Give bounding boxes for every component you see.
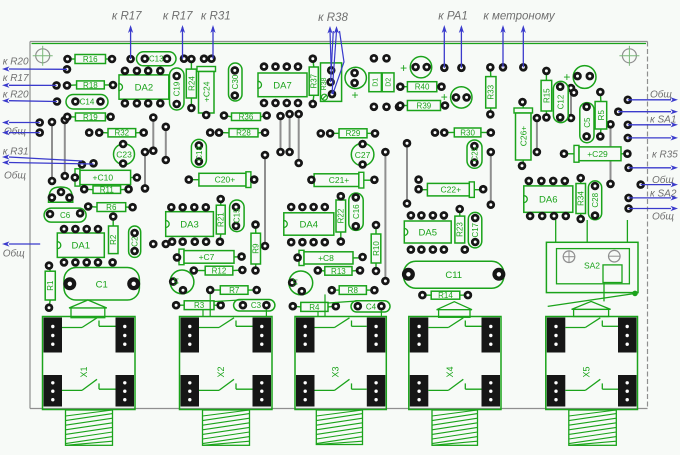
pads к PA1 targets [440, 64, 466, 73]
svg-text:DA7: DA7 [273, 80, 291, 91]
capacitor C4 [351, 301, 390, 312]
pads к метроному targets [499, 63, 528, 72]
transistor VT (channel 3) [288, 271, 313, 296]
resistor R34 [576, 174, 586, 224]
svg-text:+: + [400, 61, 407, 75]
svg-text:DA3: DA3 [180, 220, 198, 231]
svg-text:C26+: C26+ [518, 126, 528, 147]
svg-text:R24: R24 [187, 76, 196, 91]
capacitor C29 [560, 145, 632, 162]
wire jumper W12 [533, 114, 542, 157]
svg-text:C4: C4 [366, 302, 377, 311]
capacitor C25 [467, 140, 482, 168]
pads below diodes [370, 103, 404, 112]
svg-text:R4: R4 [309, 303, 320, 312]
label к R38 with three wires [318, 12, 348, 94]
board outline [30, 42, 648, 409]
op-amp DA4 [284, 203, 334, 247]
label к R17 (left) [2, 73, 57, 88]
svg-text:Общ: Общ [4, 169, 26, 181]
resistor R15 [541, 67, 552, 122]
connector X1 [43, 317, 136, 410]
label Общ (left, top group) [2, 120, 40, 137]
capacitor C2 [129, 226, 141, 257]
label к SA2 [629, 189, 678, 201]
svg-text:R32: R32 [114, 129, 129, 138]
svg-text:C12: C12 [557, 94, 566, 109]
op-amp DA3 [166, 203, 214, 246]
label к R20 (left, second) [2, 89, 57, 103]
capacitor C16 [349, 193, 363, 231]
resistor R2 [109, 212, 119, 253]
pad к R17 target [126, 55, 135, 64]
svg-text:+C7: +C7 [199, 252, 215, 262]
svg-text:R11: R11 [100, 186, 115, 195]
svg-text:к метроному: к метроному [483, 11, 555, 23]
svg-text:C13: C13 [149, 55, 164, 64]
diode D2 [382, 73, 394, 92]
pads right of DA1 [149, 240, 170, 249]
capacitor C24 [197, 67, 216, 120]
wire traces near R3 C3 [203, 294, 266, 317]
svg-text:DA4: DA4 [300, 219, 318, 230]
svg-text:D2: D2 [386, 78, 393, 87]
svg-text:C23: C23 [116, 150, 132, 160]
wire jumper W6b [285, 110, 294, 157]
svg-text:X5: X5 [582, 366, 592, 377]
svg-text:C16: C16 [352, 204, 361, 219]
capacitor C3 [234, 300, 275, 312]
fiducial top-left [33, 46, 53, 66]
svg-text:R21: R21 [217, 212, 226, 227]
label к R17 (first) [112, 11, 142, 60]
label к R31 (top) [201, 11, 231, 59]
wire jumper W2 [61, 116, 70, 181]
wire jumper W7 [294, 110, 303, 168]
svg-text:R18: R18 [83, 81, 98, 90]
svg-text:R22: R22 [337, 208, 346, 223]
svg-text:C6: C6 [60, 211, 71, 220]
capacitor C17 [468, 212, 482, 248]
svg-text:R6: R6 [106, 203, 117, 212]
capacitor C6 [44, 208, 86, 222]
resistor R33 [486, 63, 496, 119]
svg-text:к R35: к R35 [652, 150, 678, 161]
wire jumper W14 [141, 148, 150, 193]
label к метроному [483, 11, 555, 68]
capacitor C30 [229, 63, 243, 101]
svg-text:R40: R40 [415, 83, 430, 92]
svg-text:X1: X1 [79, 366, 89, 377]
svg-text:R7: R7 [229, 286, 240, 295]
resistor R13 [314, 266, 365, 276]
svg-text:+C8: +C8 [318, 253, 334, 263]
resistor R10 [371, 221, 381, 276]
svg-text:R19: R19 [83, 113, 98, 122]
wire jumper W13 [567, 84, 576, 123]
transistor VT (top, left) [345, 67, 366, 88]
pad row top channel 2 [180, 54, 216, 63]
resistor R40 [396, 82, 446, 92]
svg-text:C1: C1 [96, 280, 108, 291]
label Общ (left, middle) [2, 160, 94, 181]
resistor R9 [251, 220, 261, 275]
svg-text:Общ: Общ [650, 89, 672, 101]
label к R31 (left) [2, 146, 82, 161]
label к R20 (left, first) [2, 57, 67, 72]
capacitor C5 [580, 103, 594, 143]
label Общ (right 1) [628, 89, 678, 103]
pads right edge column [614, 96, 645, 213]
capacitor C15 [230, 200, 245, 232]
connector X4 cap [437, 302, 472, 318]
svg-text:DA2: DA2 [135, 83, 153, 94]
svg-text:C17: C17 [471, 222, 480, 237]
svg-text:R9: R9 [252, 243, 261, 254]
label Общ (left, bottom) [2, 241, 40, 259]
resistor R7 [206, 286, 261, 295]
capacitor C12 [553, 81, 568, 122]
capacitor C19 [170, 68, 185, 110]
label Общ (right 3) [629, 206, 678, 223]
connector X2 [180, 317, 273, 410]
svg-text:к R20: к R20 [3, 57, 29, 68]
svg-text:к R17: к R17 [163, 11, 193, 23]
resistor R28 [206, 128, 269, 137]
resistor R1 [45, 261, 56, 312]
label к R35 [628, 135, 678, 170]
resistor R19 [63, 113, 115, 122]
svg-text:R23: R23 [456, 222, 465, 237]
resistor R8 [328, 286, 379, 295]
label к R17 (second) [163, 11, 193, 59]
svg-text:C3: C3 [251, 301, 262, 310]
svg-text:C27: C27 [355, 150, 371, 160]
resistor R23 [455, 205, 465, 243]
resistor R36 [220, 111, 271, 121]
svg-text:R30: R30 [460, 128, 475, 137]
transistor VT (channel 5) [573, 66, 596, 89]
connector X5 cap [572, 301, 611, 316]
svg-text:+C29: +C29 [587, 149, 608, 159]
capacitor C14 [66, 95, 108, 110]
pads к R31 targets [78, 159, 98, 169]
capacitor C28 [588, 181, 601, 220]
resistor R3 [172, 301, 225, 310]
capacitor C23 [114, 140, 135, 168]
wire jumper W10 [487, 148, 496, 209]
transistor VT (top, middle) [410, 56, 431, 77]
svg-text:R12: R12 [212, 267, 227, 276]
svg-text:+: + [351, 88, 358, 102]
capacitor C20 [185, 172, 259, 188]
svg-text:C30: C30 [231, 74, 240, 89]
connector X3 [295, 317, 386, 410]
svg-text:R37: R37 [310, 73, 319, 88]
resistor R14 [418, 291, 472, 300]
op-amp DA5 [404, 211, 469, 254]
svg-text:SA2: SA2 [584, 261, 600, 271]
svg-text:к R17: к R17 [3, 73, 29, 84]
capacitor C26 [514, 98, 533, 170]
svg-text:R10: R10 [372, 241, 381, 256]
svg-text:Общ: Общ [652, 211, 674, 223]
svg-text:R36: R36 [239, 113, 254, 122]
svg-text:+C10: +C10 [93, 173, 114, 183]
transistor VT (channel 2) [169, 270, 194, 295]
hatched block under X4 [432, 410, 478, 445]
resistor R39 [396, 101, 449, 111]
svg-text:R16: R16 [83, 55, 98, 64]
resistor R12 [190, 266, 247, 276]
wire jumper W6 [276, 112, 285, 157]
pad left of R16 [63, 65, 72, 74]
transistor VT1 (dome) [48, 187, 74, 202]
resistor R21 [216, 195, 226, 246]
capacitor C8 [293, 250, 367, 265]
SA2 screw symbol left [563, 251, 575, 263]
resistor R16 [63, 55, 116, 64]
resistor R22 [336, 192, 346, 246]
svg-text:R5: R5 [597, 110, 606, 121]
svg-text:+C24: +C24 [201, 81, 211, 102]
svg-text:R29: R29 [346, 129, 361, 138]
svg-text:R33: R33 [487, 84, 496, 99]
hatched block under X2 [203, 410, 250, 445]
svg-text:X2: X2 [216, 366, 226, 377]
svg-text:C11: C11 [445, 270, 462, 281]
pad above C22 [414, 175, 423, 184]
hatched block under X1 [66, 410, 113, 445]
label к PA1 [438, 11, 468, 68]
resistor R4 [289, 302, 341, 312]
svg-text:R38: R38 [321, 77, 328, 90]
svg-text:C25: C25 [470, 146, 479, 161]
connector X1 cap [69, 300, 107, 318]
hatched block under X3 [316, 410, 362, 445]
pads Общ left group [35, 118, 44, 137]
capacitor C22 [414, 182, 487, 198]
op-amp DA1 [57, 225, 117, 267]
wire traces near R4 C4 [318, 294, 381, 316]
svg-text:C20+: C20+ [215, 175, 236, 185]
svg-text:к R38: к R38 [318, 12, 348, 24]
resistor R6 [84, 202, 137, 212]
svg-text:Общ: Общ [3, 248, 25, 260]
svg-text:к R31: к R31 [201, 11, 231, 23]
wire jumper W5 [261, 151, 270, 251]
svg-text:R39: R39 [417, 101, 432, 110]
resistor R30 [431, 128, 495, 137]
svg-text:R28: R28 [236, 129, 251, 138]
capacitor C10 [71, 169, 142, 186]
transistor VT (top, right) [451, 87, 472, 108]
label к SA1 [618, 109, 678, 127]
svg-text:C2: C2 [131, 236, 140, 247]
resistor R5 [595, 88, 607, 141]
svg-text:R34: R34 [577, 191, 586, 206]
svg-text:DA6: DA6 [539, 195, 557, 206]
op-amp DA6 [524, 177, 573, 221]
svg-text:R13: R13 [331, 267, 346, 276]
wire jumper W4 [162, 123, 171, 165]
switch SA2 assembly [546, 220, 638, 301]
svg-text:DA5: DA5 [419, 227, 437, 238]
capacitor C7 [173, 249, 246, 265]
resistor R32 [85, 128, 148, 137]
wire jumper W8 [381, 148, 390, 286]
diode D1 [369, 73, 382, 92]
capacitor C11 [402, 261, 506, 288]
svg-text:R3: R3 [194, 301, 205, 310]
SA2 lever [548, 291, 638, 307]
resistor R29 [317, 129, 380, 138]
connector X5 [546, 317, 638, 410]
wire jumper W3 [149, 113, 158, 155]
svg-text:C22+: C22+ [441, 185, 462, 195]
svg-text:к PA1: к PA1 [438, 11, 468, 23]
svg-text:X4: X4 [445, 366, 455, 377]
svg-text:C15: C15 [233, 208, 242, 223]
SA2 screw symbol right [609, 250, 621, 262]
wire jumper W1 [48, 118, 57, 186]
plus sign left of VT top-middle [400, 61, 407, 75]
pads above diodes [370, 54, 391, 63]
svg-text:к R20: к R20 [3, 89, 29, 100]
svg-text:R8: R8 [348, 286, 359, 295]
svg-text:C14: C14 [80, 98, 95, 107]
svg-text:R1: R1 [46, 280, 55, 291]
capacitor C1 [63, 268, 140, 301]
plus sign below VT top-left [351, 88, 358, 102]
svg-text:+: + [441, 90, 448, 104]
hatched block under X5 [569, 410, 617, 445]
wire jumper W9 [403, 139, 412, 208]
pad near transistor ch5 [570, 88, 579, 97]
op-amp DA7 [258, 62, 307, 107]
capacitor C18 [191, 139, 206, 167]
svg-text:R2: R2 [109, 234, 118, 245]
svg-text:R14: R14 [438, 291, 453, 300]
svg-text:C28: C28 [591, 192, 600, 207]
svg-text:+: + [563, 70, 570, 84]
svg-text:VT: VT [292, 278, 299, 286]
pad near C14 (к R20) [53, 97, 62, 106]
connector X4 [409, 317, 501, 410]
resistor R24 [186, 55, 196, 113]
svg-text:C5: C5 [583, 117, 592, 128]
svg-text:D1: D1 [373, 78, 380, 87]
svg-text:к R17: к R17 [112, 11, 142, 23]
label Общ (right 2) [641, 174, 678, 187]
capacitor C27 [351, 140, 374, 169]
wire jumper W11 [606, 120, 615, 188]
svg-text:DA1: DA1 [72, 241, 90, 252]
plus sign near C12 [563, 70, 570, 84]
svg-text:C18: C18 [195, 146, 204, 161]
svg-text:C21+: C21+ [329, 175, 350, 185]
svg-text:R15: R15 [542, 88, 551, 103]
svg-text:C19: C19 [173, 81, 182, 96]
trimmer R38 [321, 63, 342, 102]
capacitor C13 [137, 52, 177, 66]
resistor R37 [309, 54, 319, 108]
resistor R11 [80, 185, 133, 195]
svg-text:VT: VT [174, 277, 181, 285]
capacitor C21 [307, 172, 379, 188]
resistor R18 [52, 81, 117, 90]
plus sign left of VT top-right [441, 90, 448, 104]
svg-text:X3: X3 [331, 366, 341, 377]
op-amp DA2 [119, 67, 169, 108]
fiducial top-right [619, 46, 639, 66]
